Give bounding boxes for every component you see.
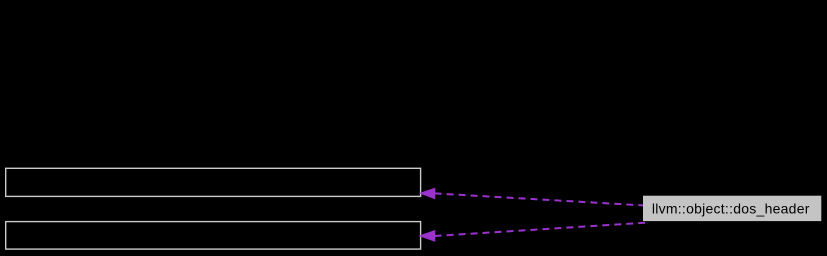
wire: dashed usage edge 1 — [435, 193, 643, 205]
node box (empty, bottom-left) — [6, 222, 421, 250]
wire: dashed usage edge 2 — [435, 222, 650, 236]
arrowhead 2 — [420, 231, 435, 242]
svg-text:llvm::object::dos_header: llvm::object::dos_header — [652, 200, 810, 216]
node box (empty, top-left) — [6, 168, 421, 196]
node llvm::object::dos_header — [643, 196, 821, 221]
arrowhead 1 — [420, 188, 435, 198]
